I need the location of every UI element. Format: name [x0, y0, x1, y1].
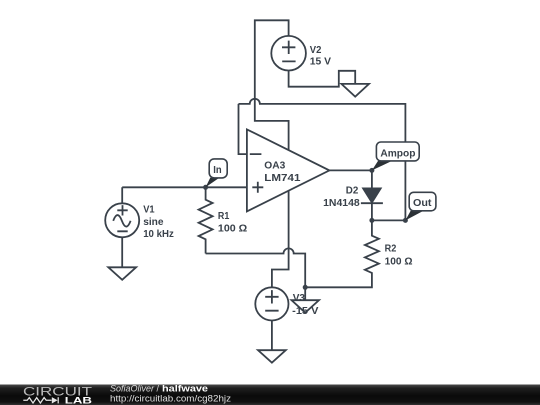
svg-text:D2: D2 [346, 185, 359, 197]
svg-text:100 Ω: 100 Ω [218, 223, 247, 235]
svg-text:OA3: OA3 [264, 160, 285, 172]
svg-text:Out: Out [413, 197, 432, 209]
svg-text:10 kHz: 10 kHz [143, 228, 174, 240]
svg-text:LM741: LM741 [264, 172, 300, 184]
svg-text:15 V: 15 V [310, 55, 331, 67]
svg-text:sine: sine [143, 216, 163, 228]
svg-text:V2: V2 [310, 44, 322, 56]
svg-text:LAB: LAB [65, 396, 92, 405]
svg-text:R1: R1 [218, 210, 230, 222]
svg-text:V1: V1 [143, 204, 155, 216]
svg-text:V3: V3 [293, 292, 305, 304]
svg-text:Ampop: Ampop [380, 147, 415, 159]
svg-text:http://circuitlab.com/cg82hjz: http://circuitlab.com/cg82hjz [110, 393, 231, 403]
svg-text:SofiaOliver: SofiaOliver [110, 383, 155, 393]
svg-text:R2: R2 [385, 242, 397, 254]
svg-text:halfwave: halfwave [162, 383, 208, 393]
svg-text:In: In [213, 164, 221, 176]
svg-text:1N4148: 1N4148 [323, 197, 360, 209]
svg-text:100 Ω: 100 Ω [385, 255, 413, 267]
svg-text:-15 V: -15 V [292, 305, 318, 317]
